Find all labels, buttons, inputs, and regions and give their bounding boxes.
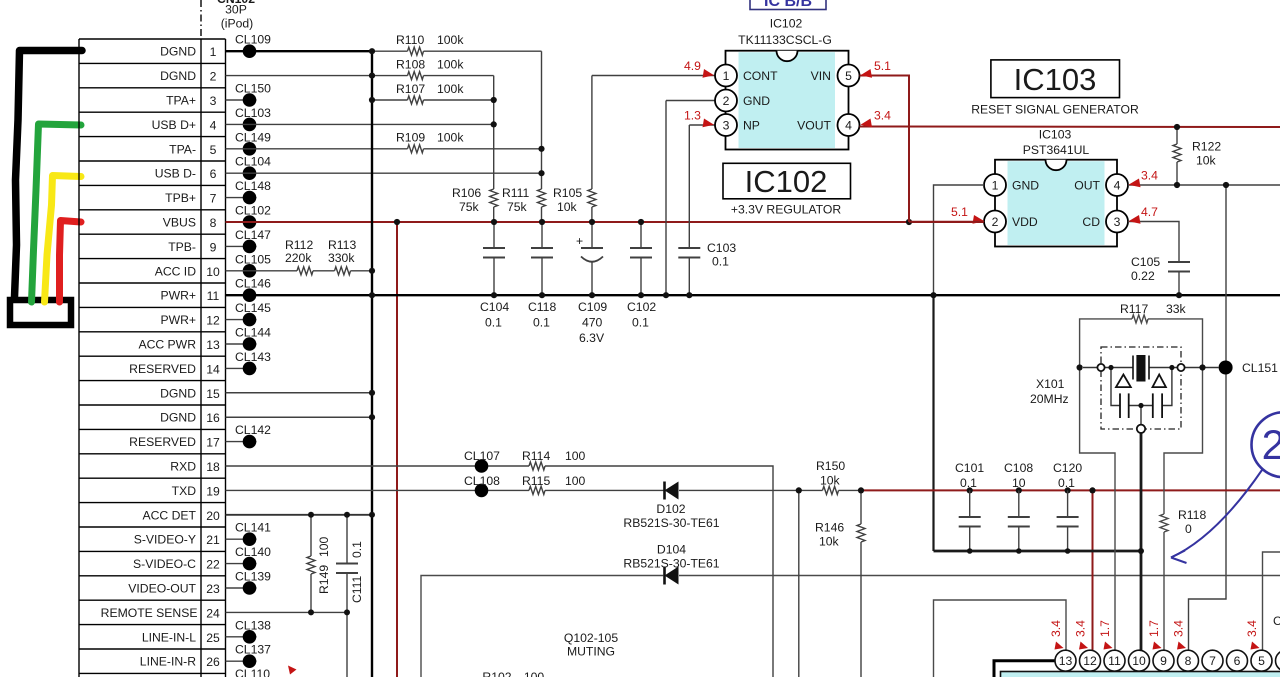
resistor R112 220k bbox=[226, 238, 314, 275]
voltage annotation 4.7 at CD bbox=[1129, 205, 1159, 224]
svg-text:R118: R118 bbox=[1178, 508, 1206, 522]
IC103 pin 2 VDD bbox=[984, 211, 1038, 233]
svg-text:GND: GND bbox=[1012, 179, 1039, 193]
ferrite bead CL147 bbox=[226, 228, 272, 253]
svg-text:10k: 10k bbox=[819, 535, 840, 549]
svg-text:CL146: CL146 bbox=[235, 277, 271, 291]
svg-text:24: 24 bbox=[206, 606, 220, 620]
svg-text:LINE-IN-R: LINE-IN-R bbox=[140, 655, 196, 669]
ferrite bead CL150 bbox=[226, 82, 272, 107]
ferrite bead CL104 bbox=[235, 155, 271, 180]
svg-text:1: 1 bbox=[992, 179, 999, 193]
wire IC103 GND leg to cap ground (thick) bbox=[932, 295, 934, 551]
junction dots IC103 area bbox=[930, 124, 1229, 298]
wire crystal bottom to pin10 (thick) bbox=[1140, 432, 1143, 650]
svg-text:0.22: 0.22 bbox=[1131, 269, 1155, 283]
voltage annotation 3.4 at pin12 bbox=[1074, 620, 1089, 650]
IC pin 4 (partial) bbox=[1276, 650, 1280, 671]
svg-text:R107: R107 bbox=[396, 82, 425, 96]
svg-text:75k: 75k bbox=[507, 200, 528, 214]
wire yellow USB D- (hand-drawn) bbox=[45, 176, 82, 303]
IC pin 5 bbox=[1251, 650, 1272, 671]
svg-text:R114: R114 bbox=[522, 449, 550, 463]
IC pin 13 bbox=[1055, 650, 1076, 671]
svg-text:IC103: IC103 bbox=[1039, 128, 1072, 142]
voltage annotation 3.4 at OUT bbox=[1129, 169, 1159, 188]
IC B/B box (cut at top) bbox=[750, 0, 826, 10]
ferrite bead CL105 bbox=[235, 252, 271, 277]
svg-text:R149: R149 bbox=[317, 565, 331, 594]
svg-text:DGND: DGND bbox=[160, 45, 196, 59]
connector CN102 30P table frame bbox=[79, 39, 226, 677]
ferrite bead CL141 bbox=[226, 521, 272, 546]
svg-text:3.4: 3.4 bbox=[1049, 620, 1063, 637]
svg-text:RXD: RXD bbox=[170, 460, 196, 474]
resistor R150 10k bbox=[816, 459, 845, 494]
capacitor C120 0.1 bbox=[1053, 461, 1082, 551]
USB plug (hand-drawn) bbox=[10, 300, 71, 325]
svg-text:3.4: 3.4 bbox=[1141, 169, 1158, 183]
svg-text:C120: C120 bbox=[1053, 461, 1082, 475]
svg-text:DGND: DGND bbox=[160, 69, 196, 83]
svg-text:100k: 100k bbox=[437, 33, 464, 47]
callout arrow from 21 bbox=[1171, 470, 1262, 563]
svg-text:C1: C1 bbox=[1273, 614, 1280, 628]
svg-text:0.1: 0.1 bbox=[533, 316, 550, 330]
ferrite bead CL144 bbox=[226, 326, 272, 351]
svg-text:330k: 330k bbox=[328, 251, 355, 265]
voltage annotation 3.4 at VOUT bbox=[861, 109, 892, 128]
svg-text:C108: C108 bbox=[1004, 461, 1033, 475]
svg-text:R113: R113 bbox=[328, 238, 356, 252]
svg-text:CL105: CL105 bbox=[235, 252, 271, 266]
svg-text:D104: D104 bbox=[657, 543, 686, 557]
svg-text:C103: C103 bbox=[707, 241, 736, 255]
svg-text:100: 100 bbox=[317, 536, 331, 557]
svg-text:CL139: CL139 bbox=[235, 570, 271, 584]
resistor R102 label (cut) bbox=[482, 670, 544, 677]
IC pin 7 bbox=[1202, 650, 1223, 671]
connector header 30P (iPod) bbox=[217, 0, 255, 31]
diode D104 RB521S-30-TE61 bbox=[623, 543, 719, 585]
svg-text:10: 10 bbox=[1132, 654, 1146, 668]
svg-text:30P: 30P bbox=[225, 3, 247, 17]
wire DGND bus vertical bbox=[371, 51, 373, 677]
svg-text:4: 4 bbox=[1114, 179, 1121, 193]
resistor R107 100k bbox=[372, 82, 494, 104]
svg-text:CL144: CL144 bbox=[235, 326, 271, 340]
wire grey path to pin13 top bbox=[934, 600, 1067, 677]
svg-text:5.1: 5.1 bbox=[874, 59, 891, 73]
svg-text:12: 12 bbox=[1083, 654, 1097, 668]
svg-text:DGND: DGND bbox=[160, 411, 196, 425]
capacitor C111 0.1 bbox=[336, 515, 364, 677]
svg-text:NP: NP bbox=[743, 119, 760, 133]
svg-text:20: 20 bbox=[206, 509, 220, 523]
svg-text:4.7: 4.7 bbox=[1141, 205, 1158, 219]
ferrite bead CL139 bbox=[226, 570, 272, 595]
svg-text:CL137: CL137 bbox=[235, 643, 271, 657]
voltage annotation 1.7 at pin11 bbox=[1098, 620, 1113, 650]
svg-text:MUTING: MUTING bbox=[567, 645, 615, 659]
svg-text:1: 1 bbox=[723, 69, 730, 83]
ferrite bead CL110 (partial at edge) bbox=[235, 667, 270, 677]
svg-text:IC102: IC102 bbox=[745, 164, 828, 199]
wire reset red to pin12 bbox=[861, 490, 1280, 650]
svg-text:CL141: CL141 bbox=[235, 521, 271, 535]
svg-text:GND: GND bbox=[743, 94, 770, 108]
IC103 pin 1 GND bbox=[984, 174, 1039, 196]
resistor R113 330k bbox=[313, 238, 372, 275]
svg-text:CL109: CL109 bbox=[235, 33, 271, 47]
IC103 pin 3 CD bbox=[1082, 211, 1128, 233]
wire CONT to IC102 pin1 bbox=[592, 75, 715, 77]
IC102 pin 2 GND bbox=[715, 90, 770, 112]
svg-text:13: 13 bbox=[206, 338, 220, 352]
svg-text:23: 23 bbox=[206, 582, 220, 596]
svg-text:R105: R105 bbox=[553, 186, 582, 200]
capacitor C102 0.1 bbox=[627, 222, 656, 330]
svg-text:7: 7 bbox=[210, 192, 217, 206]
dash-dot centerline above table bbox=[200, 0, 202, 39]
svg-text:CONT: CONT bbox=[743, 69, 778, 83]
capacitor C101 0.1 bbox=[955, 461, 984, 551]
wire IC102 GND pin2 to ground bbox=[666, 101, 715, 296]
svg-text:DGND: DGND bbox=[160, 386, 196, 400]
svg-text:0.1: 0.1 bbox=[485, 316, 502, 330]
wire VIN to VBUS (red) bbox=[860, 76, 910, 223]
svg-text:1.3: 1.3 bbox=[684, 109, 701, 123]
voltage annotation 4.9 at CONT bbox=[684, 59, 714, 78]
wire VBUS red vertical drop bbox=[396, 222, 398, 677]
svg-text:13: 13 bbox=[1059, 654, 1073, 668]
svg-text:2: 2 bbox=[992, 215, 999, 229]
ferrite bead CL148 bbox=[226, 179, 272, 204]
svg-text:IC102: IC102 bbox=[770, 17, 803, 31]
svg-text:3.4: 3.4 bbox=[874, 109, 891, 123]
IC102 pin 5 VIN bbox=[811, 65, 860, 87]
ferrite bead CL108 bbox=[464, 474, 500, 497]
wire USB D- row6 bbox=[226, 172, 542, 174]
resistor R111 75k bbox=[502, 186, 546, 214]
svg-text:20MHz: 20MHz bbox=[1030, 392, 1069, 406]
svg-text:+: + bbox=[576, 234, 583, 248]
svg-text:Q102-105: Q102-105 bbox=[564, 631, 618, 645]
svg-text:R115: R115 bbox=[522, 474, 550, 488]
svg-text:D102: D102 bbox=[656, 502, 685, 516]
wire to pin5 bbox=[1263, 552, 1280, 651]
svg-text:RESERVED: RESERVED bbox=[129, 362, 196, 376]
IC pin 6 bbox=[1227, 650, 1248, 671]
svg-text:CD: CD bbox=[1082, 215, 1100, 229]
svg-text:C102: C102 bbox=[627, 300, 656, 314]
ferrite bead CL151 bbox=[1219, 361, 1279, 376]
voltage annotation 1.3 at NP bbox=[684, 109, 714, 128]
svg-text:VIDEO-OUT: VIDEO-OUT bbox=[128, 582, 196, 596]
IC103 function label box bbox=[971, 60, 1139, 117]
svg-text:CL150: CL150 bbox=[235, 82, 271, 96]
svg-text:S-VIDEO-C: S-VIDEO-C bbox=[133, 557, 196, 571]
svg-text:CL151: CL151 bbox=[1242, 361, 1278, 375]
svg-text:0.1: 0.1 bbox=[632, 316, 649, 330]
svg-text:TXD: TXD bbox=[172, 484, 197, 498]
resistor R108 100k bbox=[396, 57, 464, 79]
IC pin 9 bbox=[1153, 650, 1174, 671]
svg-text:C109: C109 bbox=[578, 300, 607, 314]
svg-text:2: 2 bbox=[723, 94, 730, 108]
svg-text:VOUT: VOUT bbox=[797, 119, 831, 133]
svg-text:S-VIDEO-Y: S-VIDEO-Y bbox=[134, 533, 196, 547]
svg-text:PWR+: PWR+ bbox=[160, 289, 196, 303]
connector pin names bbox=[101, 45, 198, 669]
junction dots mid bottom bbox=[796, 487, 1096, 493]
ferrite bead CL107 bbox=[464, 449, 500, 473]
svg-text:22: 22 bbox=[206, 558, 220, 572]
voltage annotation 3.4 at pin8 bbox=[1172, 620, 1187, 650]
svg-text:CL138: CL138 bbox=[235, 618, 271, 632]
svg-text:25: 25 bbox=[206, 631, 220, 645]
wire OUT net bbox=[1128, 184, 1280, 186]
svg-text:6: 6 bbox=[1234, 654, 1241, 668]
voltage annotation 5.1 at VIN bbox=[861, 59, 892, 78]
svg-text:R117: R117 bbox=[1120, 302, 1148, 316]
junction dots right bottom bbox=[967, 548, 1144, 554]
transistor Q102-105 muting label bbox=[564, 631, 618, 659]
IC102 pin 4 VOUT bbox=[797, 114, 859, 136]
svg-text:8: 8 bbox=[210, 216, 217, 230]
wire red VBUS (hand-drawn) bbox=[60, 221, 82, 303]
capacitor C103 0.1 on NP net bbox=[678, 125, 736, 295]
resistor R106 75k bbox=[452, 186, 498, 214]
svg-text:10k: 10k bbox=[820, 474, 841, 488]
svg-text:0: 0 bbox=[1185, 522, 1192, 536]
svg-text:OUT: OUT bbox=[1074, 179, 1100, 193]
svg-text:CL147: CL147 bbox=[235, 228, 271, 242]
svg-text:REMOTE SENSE: REMOTE SENSE bbox=[101, 606, 198, 620]
svg-text:VBUS: VBUS bbox=[163, 216, 196, 230]
resistor R149 100 bbox=[307, 515, 331, 613]
IC102 pin 3 NP bbox=[715, 114, 760, 136]
svg-text:3.4: 3.4 bbox=[1172, 620, 1186, 637]
wire crystal right leg bbox=[1164, 368, 1203, 515]
IC pin 11 bbox=[1104, 650, 1125, 671]
diode D102 RB521S-30-TE61 bbox=[623, 482, 719, 531]
svg-text:R102: R102 bbox=[482, 670, 511, 677]
svg-text:21: 21 bbox=[1262, 421, 1280, 468]
svg-text:10k: 10k bbox=[557, 200, 578, 214]
svg-text:220k: 220k bbox=[285, 251, 312, 265]
svg-text:TPA-: TPA- bbox=[169, 142, 196, 156]
voltage annotation 3.4 at pin13 bbox=[1049, 620, 1064, 650]
svg-text:3.4: 3.4 bbox=[1245, 620, 1259, 637]
svg-text:9: 9 bbox=[1160, 654, 1167, 668]
wire DGND row16 bbox=[226, 416, 373, 418]
svg-text:USB D-: USB D- bbox=[155, 167, 196, 181]
svg-text:R108: R108 bbox=[396, 57, 425, 71]
crystal X101 20MHz assembly bbox=[1030, 347, 1219, 433]
svg-text:CL103: CL103 bbox=[235, 106, 271, 120]
svg-text:1.7: 1.7 bbox=[1147, 620, 1161, 637]
svg-text:LINE-IN-L: LINE-IN-L bbox=[142, 630, 196, 644]
wire ACC DET row20 bbox=[226, 514, 373, 516]
svg-text:3: 3 bbox=[723, 119, 730, 133]
ferrite bead CL149 bbox=[235, 130, 271, 155]
capacitor C108 10 bbox=[1004, 461, 1033, 551]
svg-text:R146: R146 bbox=[815, 521, 844, 535]
wire crystal left leg to pin11 bbox=[1080, 368, 1115, 651]
svg-text:12: 12 bbox=[206, 314, 220, 328]
svg-text:RB521S-30-TE61: RB521S-30-TE61 bbox=[623, 516, 719, 530]
svg-text:7: 7 bbox=[1209, 654, 1216, 668]
resistor R115 100 bbox=[522, 474, 586, 494]
svg-text:10k: 10k bbox=[1196, 154, 1217, 168]
wire reset net vertical through CL151 bbox=[1189, 185, 1227, 651]
svg-text:ACC DET: ACC DET bbox=[143, 508, 197, 522]
svg-text:14: 14 bbox=[206, 362, 220, 376]
resistor R114 100 bbox=[522, 449, 586, 470]
svg-text:CL145: CL145 bbox=[235, 301, 271, 315]
capacitor C104 0.1 bbox=[480, 222, 509, 330]
svg-text:3: 3 bbox=[1114, 215, 1121, 229]
wire DGND row15 bbox=[226, 392, 373, 394]
voltage annotation (cut) row 27 bbox=[288, 666, 297, 675]
IC pin 10 bbox=[1129, 650, 1150, 671]
svg-text:CL143: CL143 bbox=[235, 350, 271, 364]
svg-text:TPA+: TPA+ bbox=[166, 94, 196, 108]
svg-text:15: 15 bbox=[206, 387, 220, 401]
svg-text:C118: C118 bbox=[528, 300, 556, 314]
svg-text:1.7: 1.7 bbox=[1098, 620, 1112, 637]
svg-text:CL148: CL148 bbox=[235, 179, 271, 193]
svg-text:19: 19 bbox=[206, 484, 220, 498]
resistor R117 33k bbox=[1080, 302, 1203, 368]
svg-text:0.1: 0.1 bbox=[1058, 476, 1075, 490]
svg-text:ACC PWR: ACC PWR bbox=[138, 338, 196, 352]
svg-text:18: 18 bbox=[206, 460, 220, 474]
resistor R109 100k bbox=[226, 131, 542, 153]
capacitor C118 0.1 bbox=[528, 222, 556, 330]
svg-text:USB D+: USB D+ bbox=[152, 118, 196, 132]
svg-text:R112: R112 bbox=[285, 238, 313, 252]
callout circle 21 bbox=[1252, 412, 1280, 477]
svg-text:4.9: 4.9 bbox=[684, 59, 701, 73]
svg-text:5.1: 5.1 bbox=[951, 205, 968, 219]
voltage annotation 5.1 at VDD bbox=[951, 205, 985, 224]
svg-text:IC B/B: IC B/B bbox=[764, 0, 812, 10]
svg-text:4: 4 bbox=[845, 119, 852, 133]
wire REMOTE SENSE row24 bbox=[226, 611, 348, 613]
svg-text:VIN: VIN bbox=[811, 69, 831, 83]
svg-text:CL102: CL102 bbox=[235, 204, 271, 218]
ferrite bead CL140 bbox=[226, 545, 272, 570]
wire muting net y575 bbox=[421, 576, 1280, 677]
IC pin 12 bbox=[1080, 650, 1101, 671]
svg-text:+3.3V REGULATOR: +3.3V REGULATOR bbox=[731, 203, 841, 217]
svg-text:100: 100 bbox=[565, 474, 586, 488]
svg-text:TK11133CSCL-G: TK11133CSCL-G bbox=[738, 33, 832, 47]
IC B/B bottom block (cut) bbox=[1001, 672, 1280, 677]
resistor R105 10k bbox=[553, 76, 596, 223]
svg-text:33k: 33k bbox=[1166, 302, 1187, 316]
ferrite bead CL143 bbox=[226, 350, 272, 375]
svg-text:R106: R106 bbox=[452, 186, 481, 200]
svg-text:C105: C105 bbox=[1131, 255, 1160, 269]
svg-text:CL149: CL149 bbox=[235, 130, 271, 144]
wire USB D+ row4 bbox=[226, 123, 494, 125]
svg-text:17: 17 bbox=[206, 436, 220, 450]
IC102 pin 1 CONT bbox=[715, 65, 778, 87]
svg-text:ACC ID: ACC ID bbox=[155, 264, 197, 278]
svg-text:PST3641UL: PST3641UL bbox=[1023, 143, 1090, 157]
svg-text:CL110: CL110 bbox=[235, 667, 270, 677]
svg-text:75k: 75k bbox=[459, 200, 480, 214]
IC102 function label box bbox=[723, 163, 851, 216]
svg-text:IC103: IC103 bbox=[1014, 62, 1097, 97]
ferrite bead CL146 bbox=[235, 277, 271, 302]
IC103 reset generator body bbox=[995, 128, 1117, 247]
svg-text:10: 10 bbox=[1012, 476, 1026, 490]
wire green USB D+ (hand-drawn) bbox=[32, 124, 82, 302]
svg-text:R150: R150 bbox=[816, 459, 845, 473]
ferrite bead CL102 bbox=[235, 204, 271, 229]
svg-text:470: 470 bbox=[582, 316, 603, 330]
connector pin numbers bbox=[206, 45, 220, 669]
resistor R118 0 bbox=[1160, 508, 1206, 651]
svg-text:6: 6 bbox=[210, 167, 217, 181]
wire VOUT +3.3V rail (red) bbox=[860, 126, 1280, 129]
resistor R110 100k bbox=[396, 33, 464, 55]
svg-text:RESERVED: RESERVED bbox=[129, 435, 196, 449]
ferrite bead CL109 bbox=[235, 33, 271, 58]
svg-text:26: 26 bbox=[206, 655, 220, 669]
svg-text:100k: 100k bbox=[437, 82, 464, 96]
svg-text:5: 5 bbox=[1258, 654, 1265, 668]
svg-text:CL107: CL107 bbox=[464, 449, 500, 463]
voltage annotation 3.4 at pin5 bbox=[1245, 620, 1260, 650]
svg-text:TPB-: TPB- bbox=[168, 240, 196, 254]
svg-text:5: 5 bbox=[845, 69, 852, 83]
resistor R122 10k bbox=[1173, 127, 1221, 185]
svg-text:6.3V: 6.3V bbox=[579, 331, 605, 345]
svg-text:PWR+: PWR+ bbox=[160, 313, 196, 327]
svg-text:5: 5 bbox=[210, 143, 217, 157]
svg-text:C104: C104 bbox=[480, 300, 509, 314]
svg-text:100k: 100k bbox=[437, 57, 464, 71]
svg-text:CL140: CL140 bbox=[235, 545, 271, 559]
wire VDD red stub bbox=[909, 221, 984, 223]
wire DGND pin1 to bus bbox=[226, 50, 373, 52]
IC pin 8 bbox=[1178, 650, 1199, 671]
svg-text:0.1: 0.1 bbox=[350, 541, 364, 558]
capacitor C105 0.22 on CD net bbox=[1128, 222, 1190, 296]
wire pin1 net through R110 bbox=[372, 51, 542, 222]
svg-text:1: 1 bbox=[210, 45, 217, 59]
svg-text:10: 10 bbox=[206, 265, 220, 279]
svg-text:(iPod): (iPod) bbox=[221, 17, 254, 31]
svg-text:11: 11 bbox=[1108, 654, 1121, 668]
wire VBUS red rail row8 bbox=[226, 221, 985, 223]
svg-text:0.1: 0.1 bbox=[960, 476, 977, 490]
svg-text:X101: X101 bbox=[1036, 377, 1065, 391]
svg-text:C111: C111 bbox=[350, 575, 364, 603]
svg-text:CL142: CL142 bbox=[235, 423, 271, 437]
svg-text:R111: R111 bbox=[502, 186, 530, 200]
wire cap ground bottom (thick) bbox=[934, 550, 1142, 553]
wire TXD branch down bbox=[798, 490, 800, 677]
svg-text:CL108: CL108 bbox=[464, 474, 500, 488]
svg-text:3.4: 3.4 bbox=[1074, 620, 1088, 637]
svg-text:TPB+: TPB+ bbox=[165, 191, 196, 205]
